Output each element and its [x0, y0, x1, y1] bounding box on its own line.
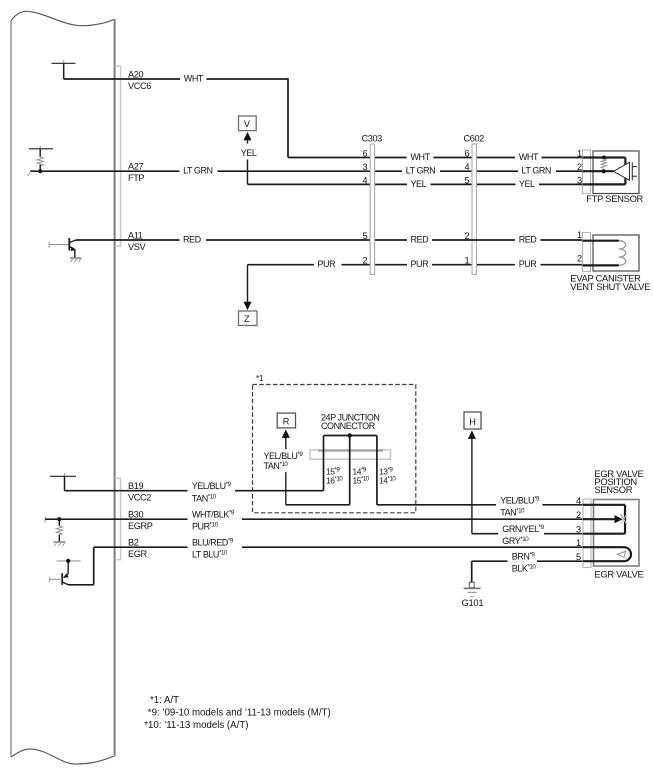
svg-text:*10: ’11-13 models (A/T): *10: ’11-13 models (A/T)	[144, 720, 248, 731]
svg-text:PUR: PUR	[318, 259, 337, 269]
connector C602	[464, 134, 485, 275]
svg-text:5: 5	[465, 175, 470, 185]
svg-text:VCC6: VCC6	[128, 81, 151, 91]
svg-text:FTP SENSOR: FTP SENSOR	[586, 193, 643, 204]
wire A27 LT GRN (row 2 left)	[28, 171, 583, 176]
svg-text:G101: G101	[462, 597, 484, 608]
svg-text:1: 1	[465, 256, 470, 266]
wire R link to leg2	[286, 504, 350, 506]
connector C303	[362, 134, 383, 275]
EGR connector bar	[576, 496, 591, 568]
label YEL/BLU TAN (R branch)	[264, 451, 304, 471]
svg-text:RED: RED	[519, 235, 538, 245]
EVAP canister vent shut valve box	[593, 235, 639, 271]
label WHT/BLK PUR (B30 row)	[192, 510, 235, 532]
svg-text:WHT: WHT	[519, 152, 539, 162]
svg-text:LT GRN: LT GRN	[183, 166, 212, 176]
ground G101	[462, 582, 484, 608]
power symbol VCC6 (A20)	[52, 60, 76, 79]
svg-text:2: 2	[363, 256, 368, 266]
24P junction connector label	[321, 412, 379, 431]
wire B19 YEL/BLU	[65, 490, 324, 492]
svg-text:VENT SHUT VALVE: VENT SHUT VALVE	[570, 281, 650, 292]
connector A bracket	[115, 66, 121, 246]
svg-text:SENSOR: SENSOR	[594, 484, 632, 495]
svg-text:3: 3	[576, 525, 581, 535]
svg-text:*1: A/T: *1: A/T	[150, 695, 179, 706]
svg-text:RED: RED	[183, 235, 202, 245]
solenoid coil inside EVAP valve	[583, 241, 626, 266]
label BLU/RED LT BLU (B2 row)	[192, 538, 234, 560]
label EVAP CANISTER VENT SHUT VALVE	[570, 273, 650, 293]
C303 pin numbers	[363, 149, 368, 266]
svg-text:6: 6	[363, 149, 368, 159]
svg-text:GRN/YEL*9: GRN/YEL*9	[502, 524, 544, 534]
svg-text:YEL: YEL	[411, 179, 427, 189]
wire A20 WHT (ECM to corner)	[64, 78, 288, 157]
svg-text:EGR: EGR	[128, 549, 147, 559]
svg-text:WHT: WHT	[411, 152, 431, 162]
wire B30 WHT/BLK (row pin2)	[45, 518, 583, 520]
svg-text:RED: RED	[411, 235, 430, 245]
svg-text:VCC2: VCC2	[128, 493, 151, 503]
svg-text:*9: ’09-10 models and ’11-13 m: *9: ’09-10 models and ’11-13 models (M/T…	[148, 708, 331, 719]
pin A20 label	[128, 70, 151, 92]
amplifier triangle inside FTP sensor	[614, 162, 638, 180]
svg-text:B19: B19	[128, 481, 143, 491]
FTP sensor internal wiring	[583, 156, 626, 185]
transistor Q (VSV driver, A11)	[49, 238, 76, 258]
wire row1 WHT (to FTP sensor)	[288, 157, 583, 159]
transistor Q (EGR driver, B2)	[50, 547, 94, 585]
svg-text:C602: C602	[464, 134, 485, 144]
pin A11 label	[128, 231, 146, 253]
power symbol VCC2 (B19)	[50, 473, 76, 490]
svg-text:YEL/BLU*9: YEL/BLU*9	[192, 481, 232, 491]
label GRN/YEL GRY (pin3 row)	[502, 524, 544, 546]
node R (test point)	[277, 413, 295, 505]
pin A27 label	[128, 162, 144, 184]
svg-text:A27: A27	[128, 162, 143, 172]
svg-text:EGR VALVE: EGR VALVE	[594, 569, 643, 580]
label YEL/BLU TAN (B19 row)	[192, 481, 232, 503]
svg-text:LT GRN: LT GRN	[522, 166, 551, 176]
svg-text:LT GRN: LT GRN	[406, 166, 435, 176]
svg-text:B2: B2	[128, 538, 139, 548]
svg-text:2: 2	[576, 510, 581, 520]
EGR valve box	[594, 500, 640, 567]
svg-text:YEL/BLU*9: YEL/BLU*9	[264, 451, 304, 461]
label YEL/BLU TAN (pin4 row)	[500, 495, 540, 517]
wire row5 PUR	[248, 264, 584, 266]
svg-text:C303: C303	[362, 134, 383, 144]
pull-down resistor at B30 (EGRP)	[45, 516, 62, 542]
wire B2 BLU/RED (row pin1)	[94, 546, 583, 548]
svg-text:B30: B30	[128, 510, 143, 520]
wire row4 RED (to EVAP valve)	[432, 239, 583, 241]
svg-text:1: 1	[577, 230, 582, 240]
svg-text:WHT/BLK*9: WHT/BLK*9	[192, 510, 235, 520]
svg-text:R: R	[283, 417, 290, 427]
svg-text:VSV: VSV	[128, 242, 146, 252]
junction bus bar and legs	[324, 433, 377, 505]
svg-text:YEL: YEL	[519, 179, 535, 189]
svg-text:3: 3	[577, 175, 582, 185]
svg-text:Z: Z	[244, 314, 250, 324]
EGR position sensor potentiometer	[583, 505, 627, 534]
svg-text:YEL: YEL	[241, 148, 257, 158]
24P junction connector bar	[310, 450, 391, 459]
junction pin labels 15/16 14/15 13/14	[326, 467, 396, 486]
dashed option box *1	[253, 373, 416, 513]
wire A11 RED (row 4 left)	[76, 239, 407, 241]
connector B bracket	[115, 478, 121, 559]
resistor inside FTP sensor	[601, 159, 606, 168]
pull-up resistor at A27 (FTP input)	[29, 146, 53, 173]
svg-text:YEL/BLU*9: YEL/BLU*9	[500, 495, 540, 505]
C602 pin numbers	[465, 149, 470, 266]
svg-text:PUR: PUR	[411, 259, 430, 269]
svg-text:FTP: FTP	[128, 173, 144, 183]
svg-text:4: 4	[465, 162, 470, 172]
svg-text:4: 4	[363, 175, 368, 185]
svg-text:6: 6	[465, 149, 470, 159]
svg-text:2: 2	[577, 162, 582, 172]
svg-text:A11: A11	[128, 231, 143, 241]
pin B19 label	[128, 481, 151, 503]
svg-text:PUR: PUR	[519, 259, 538, 269]
footnotes	[144, 695, 330, 731]
svg-text:A20: A20	[128, 70, 143, 80]
svg-text:CONNECTOR: CONNECTOR	[321, 421, 376, 431]
wire row3 YEL	[248, 183, 584, 185]
svg-text:5: 5	[576, 552, 581, 562]
pin B30 label	[128, 510, 153, 532]
wire G101 to EGR valve pin5 BRN/BLK	[472, 561, 583, 582]
EGR sensor/valve labels above box	[594, 468, 643, 495]
node Z (test point)	[239, 265, 258, 326]
svg-text:*1: *1	[256, 373, 264, 383]
signal ground (B30)	[54, 542, 66, 546]
label BRN BLK (pin5 row)	[512, 552, 537, 574]
svg-text:4: 4	[576, 496, 581, 506]
node V (test point)	[239, 116, 257, 184]
svg-text:1: 1	[577, 149, 582, 159]
FTP sensor connector bar	[577, 149, 591, 194]
svg-text:5: 5	[363, 231, 368, 241]
ECM/PCM body (torn vertical band)	[11, 11, 115, 764]
EGR valve solenoid loop	[583, 547, 631, 561]
wire H to EGR sensor pin3 GRN/YEL	[472, 533, 583, 535]
FTP sensor box	[593, 151, 639, 194]
node H (test point)	[464, 412, 481, 534]
wire leg3 to EGR sensor pin4	[377, 504, 583, 506]
svg-text:3: 3	[363, 162, 368, 172]
svg-text:2: 2	[577, 254, 582, 264]
signal ground (A11 emitter)	[70, 258, 82, 262]
pin B2 label	[128, 538, 147, 560]
svg-text:1: 1	[576, 538, 581, 548]
svg-text:EGRP: EGRP	[128, 521, 153, 531]
svg-text:H: H	[469, 417, 475, 427]
svg-text:BLU/RED*9: BLU/RED*9	[192, 538, 234, 548]
svg-text:WHT: WHT	[184, 74, 204, 84]
EVAP valve connector bar	[577, 230, 591, 271]
